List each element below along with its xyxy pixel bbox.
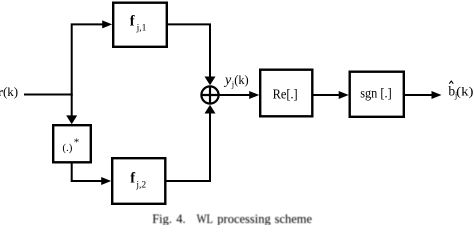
- svg-text:scheme: scheme: [275, 212, 313, 225]
- svg-text:f: f: [130, 13, 135, 29]
- svg-text:j,2: j,2: [135, 180, 146, 190]
- svg-text:*: *: [74, 137, 80, 149]
- svg-text:y: y: [223, 73, 232, 88]
- svg-text:processing: processing: [217, 212, 271, 225]
- svg-text:4.: 4.: [176, 212, 185, 225]
- svg-text:r(k): r(k): [0, 84, 18, 99]
- svg-text:sgn [.]: sgn [.]: [360, 87, 392, 102]
- svg-text:j,1: j,1: [136, 23, 147, 33]
- svg-text:WL: WL: [197, 212, 213, 225]
- svg-text:Re[.]: Re[.]: [273, 87, 298, 102]
- svg-text:(k): (k): [234, 72, 249, 87]
- svg-text:f: f: [130, 170, 135, 186]
- svg-text:Fig.: Fig.: [152, 212, 172, 225]
- svg-text:(.): (.): [62, 142, 72, 154]
- svg-text:(k): (k): [456, 84, 473, 99]
